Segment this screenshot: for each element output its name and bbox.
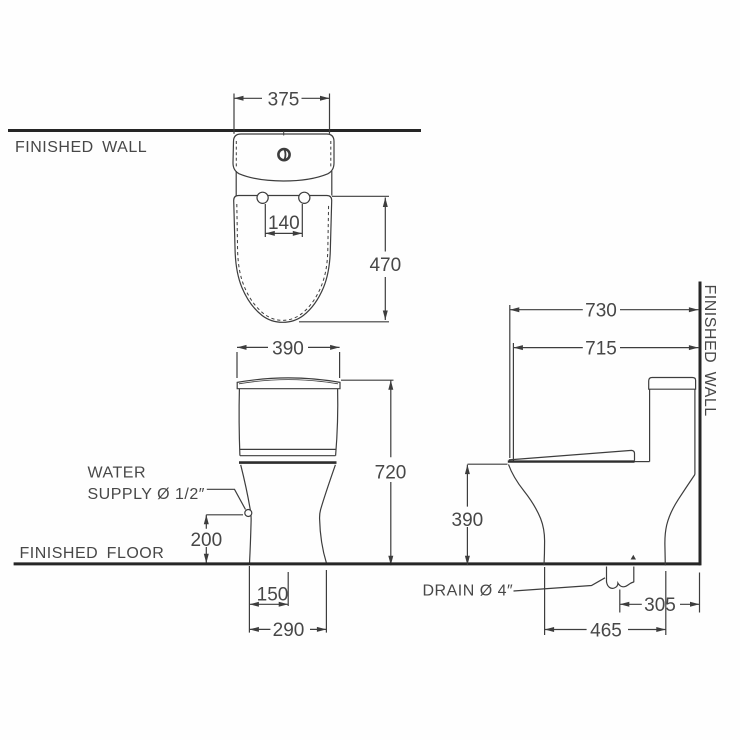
drain marker (631, 555, 636, 560)
dim 715 extension left (512, 343, 514, 461)
tank body right (front) (336, 389, 338, 456)
dim 200 tick top (206, 514, 243, 516)
svg-text:715: 715 (585, 339, 617, 360)
dim 150 arrows (249, 602, 288, 607)
seat bottom thick (side) (508, 460, 635, 462)
dim 390 line (237, 346, 340, 348)
bowl rim line to tank (side) (635, 461, 650, 463)
dim 375 line (234, 97, 330, 99)
dim 470 extension bottom (299, 321, 389, 323)
dim 150/290 extension left (248, 566, 250, 633)
finished wall line (top, plan view) (8, 129, 421, 132)
bowl side right (plan) (331, 171, 333, 196)
seat lid outline (plan) (234, 196, 332, 323)
dim 730 extension left (509, 305, 511, 458)
hinge circle left (257, 192, 268, 203)
dim 140 line (265, 232, 302, 234)
tank center tick (283, 131, 285, 136)
dim 375 extension right (329, 94, 331, 134)
tank lid (side) (649, 378, 696, 390)
dim 290 arrows (249, 627, 326, 632)
water supply circle (245, 510, 252, 517)
dim 715 line (513, 347, 698, 349)
svg-text:DRAIN Ø 4″: DRAIN Ø 4″ (423, 582, 514, 599)
dim 390 side extension (468, 463, 508, 465)
dim 375 arrows (234, 96, 330, 101)
tank hidden edge dashes right (330, 141, 332, 168)
dim 730 arrows (510, 307, 699, 312)
svg-text:150: 150 (257, 584, 289, 605)
tank bottom band line1 (240, 448, 337, 450)
hinge circle right (299, 192, 310, 203)
svg-text:WATER: WATER (88, 464, 147, 481)
dim 470 line (384, 198, 386, 321)
dim 720 arrows (388, 380, 393, 565)
dim 465 extension left (544, 567, 546, 635)
svg-text:465: 465 (590, 620, 622, 641)
dim 150 line (249, 603, 288, 605)
svg-text:140: 140 (268, 213, 300, 234)
svg-text:390: 390 (272, 338, 304, 359)
dim 465 line (545, 629, 666, 631)
tank back edge (side) (694, 389, 696, 474)
tank lid (front) (237, 378, 340, 389)
dim 150 extension right (287, 572, 289, 606)
seat hidden dashed outline (plan) (237, 204, 329, 320)
dim 290 extension right (325, 570, 327, 633)
dim 140 extension left (264, 204, 266, 237)
dim 200 line (205, 515, 207, 564)
dim 715 arrows (513, 345, 698, 350)
dim 465 arrows (545, 627, 666, 632)
dim 390 extension right (339, 352, 341, 378)
tank outline (plan) (233, 134, 334, 181)
drain pipe left (606, 567, 608, 583)
svg-text:FINISHED WALL: FINISHED WALL (15, 139, 147, 156)
dim 290 line (249, 628, 326, 630)
dim 390 side line (466, 465, 468, 566)
flush button divider (285, 150, 286, 160)
dim 720 line (390, 380, 392, 565)
drain leader (514, 578, 606, 591)
dim 305 line (620, 603, 700, 605)
bowl side left (plan) (235, 171, 237, 196)
tank bottom band line2 (240, 455, 336, 457)
svg-text:FINISHED WALL: FINISHED WALL (701, 285, 718, 417)
tank body left (front) (238, 389, 241, 456)
svg-text:SUPPLY Ø 1/2″: SUPPLY Ø 1/2″ (88, 486, 205, 503)
water supply leader (207, 489, 246, 509)
dim 305 extension left (619, 590, 621, 613)
dim 305 extension right (699, 573, 701, 613)
dim 470 extension top (332, 195, 389, 197)
svg-text:390: 390 (452, 510, 484, 531)
dim 720 extension top (341, 379, 394, 381)
flush button outer (278, 149, 289, 160)
tank front edge (side) (649, 389, 651, 461)
dim 305 arrows (620, 602, 700, 607)
svg-text:375: 375 (268, 89, 300, 110)
tank lid top arc detail (239, 380, 338, 384)
svg-text:730: 730 (585, 301, 617, 322)
pedestal right profile (front) (320, 465, 336, 564)
dim 730 line (510, 309, 699, 311)
svg-text:290: 290 (273, 620, 305, 641)
svg-text:470: 470 (369, 255, 401, 276)
seat wedge (side) (509, 450, 635, 460)
dim 140 arrows (265, 231, 302, 236)
drain pipe break squiggle (607, 582, 634, 589)
svg-text:200: 200 (190, 530, 222, 551)
dim 200 arrows (204, 515, 209, 564)
svg-text:720: 720 (375, 462, 407, 483)
dim 375 extension left (233, 94, 235, 134)
finished floor line (14, 562, 701, 565)
bowl back profile (side) (665, 475, 695, 566)
dim 465 extension right (665, 571, 667, 635)
svg-text:FINISHED FLOOR: FINISHED FLOOR (20, 545, 165, 562)
drain pipe right (633, 567, 635, 583)
svg-text:305: 305 (644, 595, 676, 616)
tank hidden edge dashes left (235, 141, 237, 168)
finished wall line (side, vertical) (699, 282, 702, 566)
seat edge thick (front) (239, 461, 337, 464)
dim 390 extension left (236, 352, 238, 378)
bowl front profile (side) (509, 464, 545, 565)
dim 140 extension right (301, 204, 303, 237)
pedestal left profile (front) (241, 465, 251, 564)
dim 390 arrows (237, 345, 340, 350)
dim 470 arrows (383, 198, 388, 321)
dim 390 side arrows (465, 465, 470, 566)
